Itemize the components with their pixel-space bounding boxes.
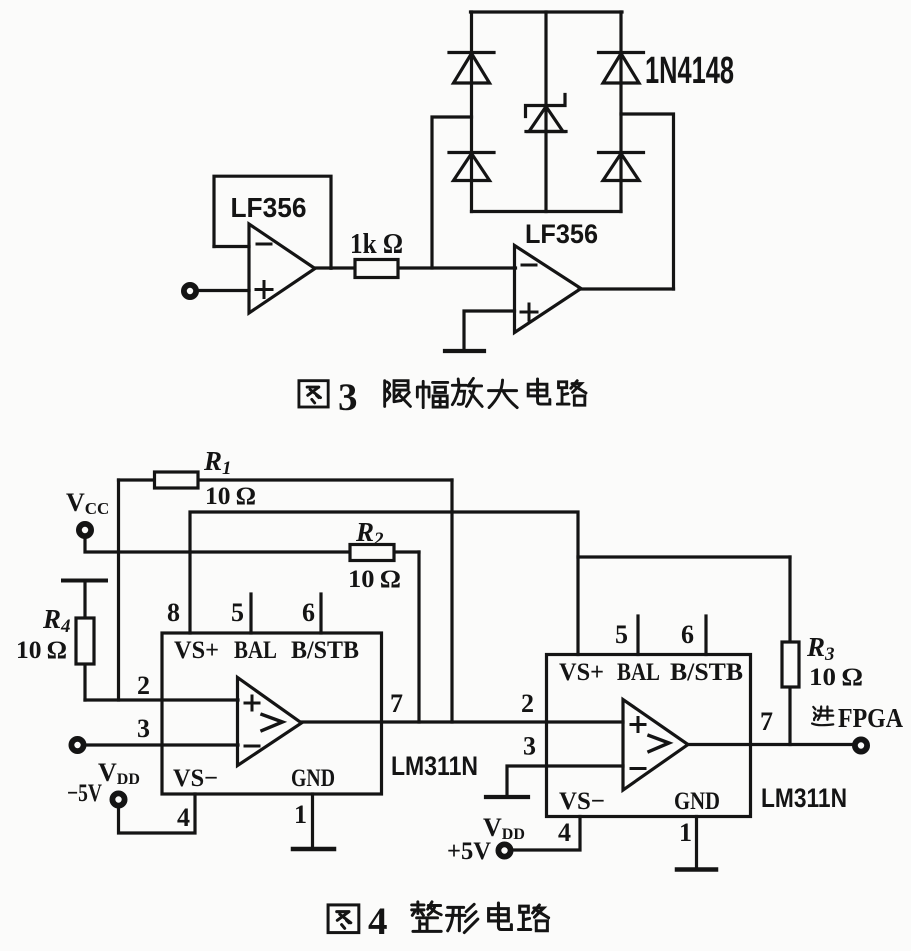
op-amp U1 feedback wire [214, 176, 331, 268]
U3 plus sign [245, 696, 259, 710]
pin 5 stub (U4) [636, 616, 639, 655]
svg-text:1N4148: 1N4148 [645, 50, 734, 92]
input terminal (fig3) [184, 285, 196, 297]
caption fig4: 图 4 整形电路 [328, 900, 549, 943]
op-amp U1 triangle [249, 224, 315, 313]
svg-text:3: 3 [523, 732, 536, 761]
wire: bridge middle branch [544, 12, 547, 212]
svg-text:5: 5 [231, 598, 244, 627]
svg-text:VDD: VDD [98, 758, 140, 788]
svg-text:4: 4 [177, 803, 190, 832]
svg-text:1: 1 [679, 818, 692, 847]
svg-text:4: 4 [368, 900, 388, 943]
op-amp U1 minus input stub [214, 245, 249, 248]
wire: R1 left vertical [117, 480, 120, 700]
wire: VDD- to pin 4 [119, 794, 196, 833]
svg-text:5: 5 [615, 620, 628, 649]
svg-text:VS−: VS− [559, 788, 605, 815]
svg-text:LM311N: LM311N [391, 751, 478, 781]
pin 6 stub (U4) [704, 616, 707, 655]
wire: pin 1 to ground (U4) [695, 817, 698, 870]
svg-text:FPGA: FPGA [838, 703, 903, 733]
caption fig3: 图 3 限幅放大电路 [299, 376, 586, 419]
svg-text:10 Ω: 10 Ω [205, 483, 256, 510]
U1 plus sign [256, 282, 272, 298]
resistor R3 [788, 557, 791, 745]
diode D bottom-right (1N4148) [599, 153, 644, 181]
wire: pin8 to VS+ net [190, 512, 578, 655]
svg-text:10 Ω: 10 Ω [16, 637, 67, 664]
svg-text:B/STB: B/STB [670, 659, 743, 686]
wire: bridge bottom rail [472, 210, 622, 213]
svg-text:6: 6 [302, 598, 315, 627]
svg-text:VS+: VS+ [174, 637, 219, 664]
ground (U3 pin1) [293, 847, 334, 852]
svg-text:2: 2 [137, 671, 150, 700]
svg-text:BAL: BAL [617, 659, 660, 686]
svg-text:R1: R1 [203, 446, 232, 479]
wire: bridge right branch [619, 12, 622, 212]
svg-text:7: 7 [760, 707, 773, 736]
wire: R1 rail [119, 478, 453, 481]
U4 plus sign [631, 718, 645, 732]
U3 minus sign [245, 745, 259, 748]
resistor R4 [83, 581, 86, 701]
svg-text:1: 1 [294, 800, 307, 829]
wire: bridge left branch [470, 12, 473, 212]
terminal output FPGA [855, 739, 867, 751]
U2 plus sign [521, 304, 537, 320]
zener diode DZ [526, 95, 567, 132]
resistor R1 [155, 472, 199, 488]
svg-text:1k Ω: 1k Ω [350, 229, 403, 260]
diode D bottom-left (1N4148) [449, 153, 494, 181]
comparator U4 triangle [623, 700, 688, 791]
svg-text:LF356: LF356 [525, 219, 598, 249]
svg-text:BAL: BAL [234, 637, 277, 664]
diode D top-left (1N4148) [449, 53, 494, 84]
pin 5 stub (U3) [249, 594, 252, 633]
U2 minus sign [522, 264, 536, 267]
wire: U2 output [579, 287, 674, 290]
ground (U4 pin1) [677, 867, 716, 872]
U1 minus sign [257, 243, 271, 246]
svg-text:−5V: −5V [67, 780, 102, 807]
svg-text:LF356: LF356 [231, 192, 307, 223]
svg-text:VCC: VCC [66, 488, 109, 518]
svg-text:GND: GND [291, 765, 335, 792]
svg-text:B/STB: B/STB [291, 637, 359, 664]
IC box U3 LM311N [162, 633, 382, 794]
U4 chevron [649, 736, 669, 752]
diode D top-right (1N4148) [599, 53, 644, 84]
wire: VCC rail [85, 536, 419, 552]
label 进FPGA [812, 703, 903, 733]
wire: bridge top rail [471, 10, 623, 13]
U3 chevron [262, 715, 283, 731]
svg-text:7: 7 [390, 689, 403, 718]
svg-text:10 Ω: 10 Ω [348, 566, 401, 593]
svg-text:8: 8 [167, 598, 180, 627]
wire: U3 out pin7 to U4 pin2 [302, 720, 623, 723]
wire: input to U1 plus [197, 289, 249, 292]
svg-text:+5V: +5V [447, 838, 491, 865]
wire: R2 right vertical [417, 552, 420, 722]
wire: U1 output through resistor to U2 [314, 266, 516, 269]
svg-text:3: 3 [338, 376, 358, 419]
svg-text:R2: R2 [355, 517, 384, 550]
U4 minus sign [631, 767, 645, 770]
terminal VDD -5V [112, 793, 124, 805]
wire: pin 1 to ground (U3) [311, 794, 314, 849]
svg-text:10 Ω: 10 Ω [809, 664, 863, 691]
resistor R2 [350, 545, 394, 561]
ground (fig3) [445, 349, 484, 353]
comparator U3 triangle [238, 678, 302, 766]
svg-text:VS−: VS− [173, 765, 218, 792]
svg-text:GND: GND [674, 788, 720, 815]
resistor 1k [355, 260, 398, 278]
wire: U2 plus to ground [464, 311, 515, 351]
IC box U4 LM311N [547, 655, 751, 817]
wire: pin 3 net [84, 743, 238, 746]
svg-text:VS+: VS+ [559, 659, 604, 686]
svg-text:LM311N: LM311N [761, 783, 847, 813]
wire: pin 3 net (U4) [507, 766, 623, 797]
wire: bridge right tap [621, 114, 674, 289]
pin 6 stub (U3) [319, 594, 322, 633]
terminal input (fig4) [71, 739, 83, 751]
svg-text:4: 4 [558, 818, 571, 847]
resistor R4 top terminal bar [63, 579, 106, 583]
svg-text:R3: R3 [806, 632, 835, 665]
ground (U4 pin3) [486, 795, 528, 799]
svg-text:2: 2 [521, 689, 534, 718]
wire: pin 2 net [85, 698, 238, 701]
terminal VDD +5V [498, 844, 510, 856]
wire: VDD+ to pin 4 (U4) [511, 817, 580, 851]
svg-text:R4: R4 [42, 604, 71, 637]
svg-text:3: 3 [137, 714, 150, 743]
wire: U4 output [687, 743, 854, 746]
op-amp U2 triangle [515, 246, 582, 333]
wire: R1 right vertical [450, 480, 453, 722]
wire: bridge left tap [432, 117, 472, 268]
terminal VCC [79, 524, 91, 536]
wire: VS+ branch to R3 [578, 555, 790, 558]
svg-text:6: 6 [681, 620, 694, 649]
